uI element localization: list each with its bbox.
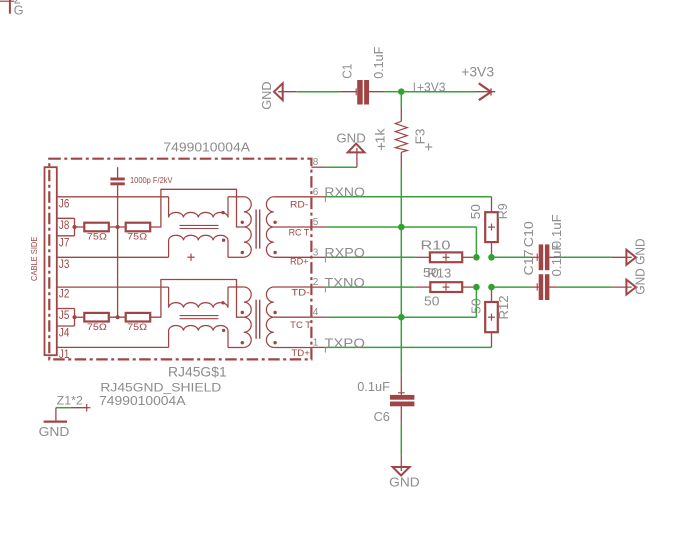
junction TXNO-R13 <box>473 284 480 291</box>
svg-text:2: 2 <box>313 277 319 288</box>
pin 5 stub <box>311 226 326 228</box>
top-left cropped ground flag Z1 pin <box>0 0 24 18</box>
svg-text:7499010004A: 7499010004A <box>99 393 186 408</box>
svg-text:75Ω: 75Ω <box>127 322 147 332</box>
svg-text:R12: R12 <box>496 296 511 320</box>
junction TXNO-R12 <box>488 284 495 291</box>
pin 3 stub <box>311 256 326 258</box>
svg-text:75Ω: 75Ω <box>127 232 147 242</box>
pin number 2 <box>313 277 319 288</box>
capacitor C10 0.1uF <box>521 214 564 270</box>
transformer origin cross <box>187 254 194 261</box>
wire +3V3 rail vertical <box>400 168 402 375</box>
pin 2 stub <box>311 286 326 288</box>
transformer RX core <box>256 210 260 249</box>
net TXPO wire pin 1 <box>325 347 491 352</box>
resistor 75 Ohm bottom right <box>126 313 151 332</box>
resistor 75 Ohm top right <box>126 223 151 242</box>
transformer RX secondary winding <box>266 197 276 257</box>
pin J7 wire <box>57 235 75 237</box>
svg-text:0.1uF: 0.1uF <box>549 242 564 276</box>
svg-text:TXPO: TXPO <box>324 335 365 350</box>
ground GND (pin 8) <box>336 131 365 153</box>
junction RXPO-R10 <box>473 254 480 261</box>
resistor 75 Ohm bottom left <box>84 313 109 332</box>
resistor R12 50 <box>469 287 511 347</box>
junction rail-pin4 <box>398 314 405 321</box>
wire between 75R bottom <box>109 316 126 318</box>
svg-text:5: 5 <box>313 217 319 228</box>
ground GND (C10) <box>612 238 648 264</box>
svg-text:J2: J2 <box>59 287 69 301</box>
pin 4 stub <box>311 316 326 318</box>
secondary wires to pins RX <box>274 197 312 257</box>
pin label J2 <box>59 287 69 301</box>
junction dot cap line bottom <box>116 315 120 319</box>
wire C6 to GND <box>400 423 402 455</box>
part text 7499010004A (bottom) <box>99 393 186 408</box>
svg-text:R9: R9 <box>495 203 510 219</box>
svg-text:J5: J5 <box>59 308 69 322</box>
wire C17 to GND <box>558 286 612 288</box>
pin 1 stub <box>311 346 326 348</box>
supply +3V3 arrow <box>461 64 495 101</box>
ground GND (C6) <box>389 455 420 489</box>
pin label J7 <box>59 235 69 249</box>
pin name TC T <box>290 320 312 330</box>
choke TX core <box>180 316 219 319</box>
wire GND to C1 <box>296 91 340 93</box>
net label TXNO <box>324 275 365 290</box>
center-tap routing wire bottom <box>149 280 244 318</box>
choke RX core <box>180 225 219 228</box>
net label TXPO <box>324 335 365 350</box>
svg-text:J8: J8 <box>59 218 69 232</box>
junction dot J-tie bottom <box>72 315 76 319</box>
resistor 75 Ohm top left <box>84 223 109 242</box>
svg-text:1: 1 <box>313 337 319 348</box>
wire between 75R top <box>109 226 126 228</box>
pin name RD+ <box>290 257 309 267</box>
device Z1 pin 2 <box>57 393 91 411</box>
secondary wires to pins TX <box>274 287 312 348</box>
junction rail-pin5 <box>398 224 405 231</box>
svg-text:0.1uF: 0.1uF <box>371 47 386 79</box>
RJ45 shield dash-dot boundary box <box>49 159 311 360</box>
svg-text:J6: J6 <box>59 196 69 210</box>
svg-text:RD+: RD+ <box>290 257 309 267</box>
svg-text:J4: J4 <box>59 326 69 340</box>
svg-text:R13: R13 <box>427 266 451 281</box>
svg-text:RXNO: RXNO <box>324 184 365 199</box>
svg-text:0.1uF: 0.1uF <box>357 379 390 394</box>
net label RXNO <box>324 184 365 199</box>
wire C10 to GND <box>558 256 612 258</box>
svg-text:75Ω: 75Ω <box>87 322 107 332</box>
svg-text:G: G <box>14 3 24 18</box>
svg-text:+3V3: +3V3 <box>461 64 494 80</box>
svg-text:RC T: RC T <box>289 228 310 238</box>
svg-text:Z1*2: Z1*2 <box>57 393 84 407</box>
svg-text:GND: GND <box>633 268 648 294</box>
junction RXPO-R9 <box>488 254 495 261</box>
net RXPO wire pin 3 <box>325 257 415 262</box>
pin number 1 <box>313 337 319 348</box>
pin number 8 <box>313 157 319 168</box>
ground GND (C17) <box>612 268 648 294</box>
svg-text:50: 50 <box>468 204 483 219</box>
svg-text:GND: GND <box>259 81 274 109</box>
pin number 5 <box>313 217 319 228</box>
capacitor C1 0.1uF <box>340 47 386 105</box>
svg-text:RXPO: RXPO <box>324 245 365 260</box>
junction dot J-tie top <box>72 225 76 229</box>
svg-text:GND: GND <box>39 424 70 439</box>
svg-text:8: 8 <box>313 157 319 168</box>
svg-text:75Ω: 75Ω <box>87 232 107 242</box>
wire junction to C10 <box>492 256 531 258</box>
ground GND (Z1) <box>39 408 70 440</box>
choke TX top winding <box>169 287 228 308</box>
wire junction to +3V3 supply <box>401 91 476 93</box>
net label +3V3 <box>414 80 445 95</box>
pin J6 wire <box>57 196 169 198</box>
wire junction to R bottom <box>75 316 85 318</box>
pin label J4 <box>59 326 69 340</box>
pin name TD- <box>291 287 310 297</box>
part text RJ45GND_SHIELD <box>100 381 221 395</box>
choke RX top winding <box>169 197 228 218</box>
svg-text:C1: C1 <box>340 64 355 79</box>
svg-text:CABLE SIDE: CABLE SIDE <box>29 236 39 281</box>
wire choke to transformer bottom TX <box>228 347 244 349</box>
svg-text:GND: GND <box>389 475 420 490</box>
pin number 6 <box>313 187 319 198</box>
component name RJ45G$1 <box>168 364 227 379</box>
center-tap routing wire top <box>149 189 244 227</box>
wire choke to transformer top TX <box>228 286 244 288</box>
pin J5 wire <box>57 308 75 310</box>
pin J3 wire <box>57 256 169 258</box>
capacitor 1000p F/2kV <box>110 167 172 317</box>
pin label J6 <box>59 196 69 210</box>
resistor R13 50 <box>416 266 473 309</box>
svg-text:TD+: TD+ <box>291 348 310 358</box>
svg-text:GND: GND <box>633 238 648 264</box>
svg-text:RD-: RD- <box>290 199 308 209</box>
pin number 4 <box>313 307 319 318</box>
transformer TX primary winding <box>241 287 252 347</box>
net TC-T wire pin 4 <box>326 287 476 317</box>
svg-text:50: 50 <box>424 294 440 309</box>
transformer TX core <box>256 300 260 339</box>
svg-text:50: 50 <box>469 298 484 314</box>
pin name RC T <box>289 228 310 238</box>
transformer RX primary winding <box>241 197 252 257</box>
pin name RD- <box>290 199 308 209</box>
pin label J5 <box>59 308 69 322</box>
svg-text:RJ45G$1: RJ45G$1 <box>168 364 227 379</box>
junction dot cap line top <box>116 225 120 229</box>
svg-text:3: 3 <box>313 247 319 258</box>
J5-J4 tie wire <box>74 309 76 327</box>
svg-text:J1: J1 <box>59 347 69 361</box>
wire C1 to +3V3 junction <box>386 91 402 93</box>
pin label J8 <box>59 218 69 232</box>
part number 7499010004A (top) <box>163 140 250 155</box>
svg-text:J3: J3 <box>59 257 69 271</box>
svg-text:1000p F/2kV: 1000p F/2kV <box>130 175 173 185</box>
wire choke to transformer bottom RX <box>228 256 244 258</box>
svg-text:R10: R10 <box>421 238 451 253</box>
svg-text:C6: C6 <box>374 409 390 424</box>
svg-text:F3: F3 <box>413 129 428 145</box>
wire pin 8 to GND <box>326 148 357 167</box>
svg-text:TD-: TD- <box>291 287 310 297</box>
resistor R10 50 <box>415 238 473 281</box>
net RXNO wire pin 6 to R9 <box>325 197 491 202</box>
pin 6 stub <box>311 196 326 198</box>
svg-text:6: 6 <box>313 187 319 198</box>
capacitor C17 0.1uF <box>521 242 564 300</box>
svg-text:TC T: TC T <box>290 320 312 330</box>
wire Z1 to GND <box>56 407 71 409</box>
choke TX bottom winding <box>169 325 228 347</box>
ground GND (C1) <box>259 81 296 109</box>
net label RXPO <box>324 245 365 260</box>
svg-text:7499010004A: 7499010004A <box>163 140 250 155</box>
pin label J3 <box>59 257 69 271</box>
net RC-T wire pin 5 <box>326 227 476 257</box>
choke RX bottom winding <box>169 235 228 257</box>
wire junction to R top <box>75 226 85 228</box>
resistor R9 50 <box>468 197 510 257</box>
capacitor C6 0.1uF <box>357 375 414 424</box>
svg-text:4: 4 <box>313 307 319 318</box>
pin name TD+ <box>291 348 310 358</box>
resistor F3 1k <box>372 92 432 168</box>
svg-text:C17: C17 <box>521 250 536 276</box>
svg-text:C10: C10 <box>521 221 536 247</box>
wire junction to C17 <box>492 286 531 288</box>
svg-text:TXNO: TXNO <box>324 275 365 290</box>
pin J2 wire <box>57 286 169 288</box>
pin J1 wire <box>57 346 169 348</box>
svg-text:1k: 1k <box>372 128 387 144</box>
wire choke to transformer top RX <box>228 196 244 198</box>
pin J8 wire <box>57 217 75 219</box>
J8-J7 tie wire <box>74 218 76 236</box>
pin 8 stub <box>311 166 326 168</box>
svg-text:GND: GND <box>336 131 365 146</box>
connector body rectangle <box>45 167 57 355</box>
CABLE SIDE label <box>29 236 39 281</box>
transformer TX secondary winding <box>266 287 276 347</box>
net TXNO wire pin 2 <box>325 287 415 292</box>
pin J4 wire <box>57 325 75 327</box>
svg-text:J7: J7 <box>59 235 69 249</box>
pin number 3 <box>313 247 319 258</box>
junction +3V3 node <box>398 88 405 95</box>
pin label J1 <box>59 347 69 361</box>
